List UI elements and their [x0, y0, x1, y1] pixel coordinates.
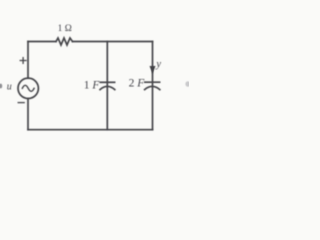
- wire top-left segment: [28, 41, 56, 43]
- svg-text:1 F: 1 F: [84, 79, 101, 91]
- capacitor C1 branch wire upper: [106, 42, 108, 86]
- capacitor C2 2F top plate: [145, 81, 160, 83]
- plus sign of source: [20, 58, 26, 64]
- source sine wave: [22, 85, 34, 91]
- wire left lower (source to bottom): [27, 99, 29, 130]
- capacitor C1 1F top plate: [100, 81, 114, 83]
- svg-text:1 Ω: 1 Ω: [58, 24, 72, 34]
- svg-text:2 F: 2 F: [129, 78, 146, 90]
- capacitor C2 2F curved plate: [145, 86, 160, 89]
- current arrow y (arrowhead): [150, 66, 156, 74]
- capacitor C2 branch wire lower: [152, 88, 154, 130]
- svg-text:y: y: [155, 59, 161, 70]
- edge smudge left: [0, 84, 2, 89]
- wire bottom: [28, 129, 153, 131]
- capacitor C1 1F curved plate: [100, 86, 115, 89]
- minus sign of source: [18, 102, 24, 104]
- svg-text:u: u: [7, 82, 12, 93]
- source U circle: [18, 78, 38, 98]
- capacitor C1 branch wire lower: [106, 88, 108, 130]
- capacitor C2 branch wire upper with current y: [152, 42, 154, 86]
- resistor R 1 ohm zigzag: [56, 38, 73, 45]
- wire top-right segment: [73, 41, 153, 43]
- wire left upper (source to top): [27, 42, 29, 79]
- edge smudge right: [185, 81, 190, 87]
